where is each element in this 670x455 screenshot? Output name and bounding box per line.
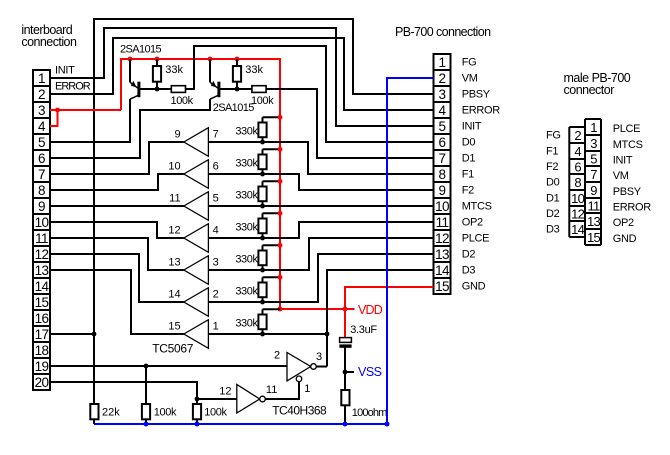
label U1E input pin 13 [168,257,180,269]
label R12 100k [154,407,177,419]
node VM rail at R13 [195,422,200,427]
capacitor C1 3.3uF [339,338,351,348]
svg-text:OP2: OP2 [613,217,634,229]
svg-text:10: 10 [168,161,180,173]
svg-text:8: 8 [574,175,581,190]
svg-text:14: 14 [168,289,180,301]
svg-text:11: 11 [436,215,449,230]
resistor R13 100k [193,404,201,424]
label U1B output pin 6 [213,161,219,173]
wire Q1 base [139,88,171,90]
svg-text:7: 7 [38,167,45,182]
svg-text:5: 5 [213,193,219,205]
labels J3 right pin names [613,123,652,245]
wire pin8 to U1B out [50,174,184,190]
wire U2B input [197,398,237,400]
node Q2 base junction [235,87,240,92]
label U1D input pin 12 [168,225,180,237]
svg-text:PLCE: PLCE [462,233,490,245]
connector J3 male PB-700 pinout [569,119,601,245]
svg-text:330k: 330k [235,318,258,330]
svg-text:D1: D1 [462,153,476,165]
svg-text:8: 8 [439,167,446,182]
title interboard connection [21,23,77,49]
resistor R8 330k [258,213,280,238]
label U1F output pin 2 [213,289,219,301]
resistor R6 330k [258,149,280,174]
svg-text:1: 1 [38,71,45,86]
wire pin13 to U1G out [50,270,184,334]
svg-text:D0: D0 [546,177,560,189]
resistor R2 33k [233,59,241,89]
svg-text:10: 10 [571,191,585,206]
node U2B input junction [195,397,200,402]
wire pin12 to U1F out [50,254,184,302]
node pin19 R12 junction [144,364,149,369]
svg-text:D3: D3 [462,265,476,277]
label VDD [358,303,383,317]
svg-text:OP2: OP2 [462,217,483,229]
title male PB-700 connector [564,71,631,97]
label U2A enable pin 1 [304,383,310,395]
node VM rail at corner [385,422,390,427]
wire Q2 base [219,88,252,90]
inverter U1A TC5067 [184,128,209,157]
wire Q1 collector to pin5 [50,99,130,142]
wire U1F to D2 pin13 [208,254,433,302]
label R3 100k [171,95,194,107]
node R10 top junction VDD [278,275,283,280]
svg-text:FG: FG [462,57,477,69]
node VDD rail at R-33k-1 top [155,57,160,62]
node R7 bottom junction [260,204,265,209]
resistor R10 330k [258,277,280,302]
svg-text:3: 3 [38,103,45,118]
svg-text:PBSY: PBSY [613,186,642,198]
node R6 top junction VDD [278,147,283,152]
svg-text:14: 14 [435,263,450,278]
wire U2B output to U2A enable [265,382,299,399]
svg-text:3: 3 [316,351,322,363]
inverter U2A TC40H368 [287,353,316,382]
svg-text:4: 4 [439,103,447,118]
svg-text:2: 2 [439,71,446,86]
svg-text:9: 9 [439,183,446,198]
wire pin20 net [50,382,197,404]
svg-text:12: 12 [168,225,180,237]
svg-text:3: 3 [213,257,219,269]
label C1 3.3uF [350,324,377,336]
svg-text:D0: D0 [462,137,476,149]
label U1A input pin 9 [174,129,180,141]
svg-text:3: 3 [590,136,597,151]
inverter U1F TC5067 [184,288,209,317]
svg-text:2: 2 [38,87,45,102]
svg-text:100ohm: 100ohm [352,407,387,419]
label R5 330k [235,126,258,138]
node D3 row7 junction [325,332,330,337]
svg-text:PLCE: PLCE [613,123,641,135]
label R10 330k [235,286,258,298]
svg-text:ERROR: ERROR [55,81,91,93]
svg-text:1: 1 [590,120,597,135]
svg-text:TC40H368: TC40H368 [272,404,327,418]
node R5 top junction VDD [278,115,283,120]
label Q1 2SA1015 [120,44,162,56]
svg-text:8: 8 [38,183,45,198]
label R6 330k [235,158,258,170]
title PB-700 connection [395,25,491,39]
resistor R9 330k [258,245,280,270]
svg-text:330k: 330k [235,126,258,138]
wire INIT net [50,28,434,126]
wire U1D to OP2 pin11 [208,222,433,238]
svg-text:9: 9 [174,129,180,141]
svg-text:12: 12 [571,206,585,221]
svg-text:2: 2 [274,349,280,361]
resistor R5 330k [258,117,280,142]
label U1D output pin 4 [213,225,219,237]
svg-text:9: 9 [38,199,45,214]
resistor R4 100k [252,86,266,93]
svg-text:15: 15 [168,321,180,333]
svg-text:6: 6 [574,159,581,174]
svg-text:6: 6 [213,161,219,173]
svg-text:16: 16 [35,311,49,326]
svg-text:F1: F1 [546,146,558,158]
svg-text:3: 3 [439,87,446,102]
resistor R1 33k [153,59,161,89]
inverter U2B TC40H368 [237,384,266,413]
node VSS junction [343,370,348,375]
svg-text:18: 18 [35,343,49,358]
label U2A output pin 3 [316,351,322,363]
svg-text:5: 5 [439,119,446,134]
svg-text:GND: GND [613,233,637,245]
label U2B input pin 12 [219,386,231,398]
svg-text:VDD: VDD [358,303,383,317]
transistor Q1 2SA1015 [130,59,139,99]
label R8 330k [235,222,258,234]
connector J1 interboard 20-pin [33,70,50,390]
svg-text:20: 20 [35,375,49,390]
label INIT [55,65,75,77]
label U1G input pin 15 [168,321,180,333]
svg-text:1: 1 [439,55,446,70]
wire pin17 stub [50,333,94,335]
svg-text:3.3uF: 3.3uF [350,324,377,336]
svg-text:GND: GND [462,281,486,293]
node pin3-pin4 junction [55,108,60,113]
label U1 TC5067 [152,342,194,356]
svg-text:100k: 100k [204,407,227,419]
label U2A input pin 2 [274,349,280,361]
svg-text:100k: 100k [171,95,194,107]
svg-text:D2: D2 [462,249,476,261]
node R9 top junction VDD [278,243,283,248]
label VSS [358,365,382,379]
wire VDD pin3 [50,109,121,111]
wire pin7 to U1A out [50,142,184,174]
label U2B output pin 11 [266,384,277,396]
svg-text:6: 6 [439,135,446,150]
label R11 330k [235,318,258,330]
connector J2 PB-700 15-pin [434,54,451,294]
svg-text:1: 1 [213,321,219,333]
label R7 330k [235,190,258,202]
wire VDD pin4 jog [50,110,58,126]
svg-text:12: 12 [435,231,449,246]
svg-text:15: 15 [587,230,601,245]
svg-text:330k: 330k [235,158,258,170]
svg-text:10: 10 [35,215,49,230]
node Q1 base junction [155,87,160,92]
labels J2 pin names [462,57,501,293]
svg-text:INIT: INIT [462,121,482,133]
svg-text:19: 19 [35,359,49,374]
resistor R7 330k [258,181,280,206]
wire VDD bottom [280,287,434,309]
wire capacitor to VSS node [344,347,346,390]
label U1B input pin 10 [168,161,180,173]
label R13 100k [204,407,227,419]
node R6 bottom junction [260,172,265,177]
svg-text:TC5067: TC5067 [152,342,194,356]
label R11 22k [102,407,120,419]
label R14 100ohm [352,407,387,419]
label R2 33k [245,64,263,76]
wire VSS stub [345,371,354,373]
svg-text:100k: 100k [251,95,274,107]
wire pin9 to U1C out [50,205,184,207]
wire VDD rail [121,59,280,309]
wire pin19 net [50,365,287,367]
label U1A output pin 7 [213,129,219,141]
svg-text:15: 15 [435,279,449,294]
svg-text:13: 13 [435,247,449,262]
wire D1 net [266,89,434,158]
label R9 330k [235,254,258,266]
node R10 bottom junction [260,300,265,305]
svg-text:11: 11 [169,193,180,205]
svg-text:7: 7 [590,167,597,182]
svg-text:MTCS: MTCS [462,201,492,213]
node R5 bottom junction [260,140,265,145]
node R11 bottom junction [260,332,265,337]
svg-text:100k: 100k [154,407,177,419]
svg-text:12: 12 [219,386,231,398]
svg-text:13: 13 [587,214,601,229]
svg-text:14: 14 [571,222,585,237]
svg-text:17: 17 [35,327,49,342]
svg-text:ERROR: ERROR [462,105,501,117]
svg-text:2SA1015: 2SA1015 [120,44,162,56]
svg-text:FG: FG [546,130,561,142]
svg-text:10: 10 [435,199,449,214]
svg-text:F2: F2 [546,161,558,173]
svg-text:15: 15 [35,295,49,310]
svg-text:2SA1015: 2SA1015 [213,102,255,114]
svg-text:PB-700 connection: PB-700 connection [395,25,491,39]
resistor R3 100k [171,86,185,93]
label U1F input pin 14 [168,289,180,301]
svg-text:12: 12 [35,247,49,262]
label U1C output pin 5 [213,193,219,205]
svg-text:13: 13 [35,263,49,278]
svg-text:330k: 330k [235,190,258,202]
wire pin11 to U1E out [50,238,184,270]
node R8 top junction VDD [278,211,283,216]
svg-text:D3: D3 [546,224,560,236]
resistor R11 22k [90,404,98,424]
wire PBSY net [94,19,434,404]
node VDD junction [343,307,348,312]
wire U1G to D3 pin14 and U2A [208,270,433,367]
svg-text:F1: F1 [462,169,474,181]
svg-text:VSS: VSS [358,365,382,379]
svg-text:14: 14 [35,279,50,294]
svg-text:13: 13 [168,257,180,269]
node R8 bottom junction [260,236,265,241]
svg-text:330k: 330k [235,222,258,234]
svg-text:1: 1 [304,383,310,395]
label Q2 2SA1015 [213,102,255,114]
wire U1E to PLCE pin12 [208,238,433,270]
resistor R14 100ohm [341,390,349,424]
label R1 33k [165,64,183,76]
node VDD rail at Q2 emitter [208,57,213,62]
svg-text:5: 5 [38,135,45,150]
svg-text:MTCS: MTCS [613,139,643,151]
svg-text:F2: F2 [462,185,474,197]
svg-text:VM: VM [462,73,478,85]
wire pin10 to U1D out [50,222,184,238]
svg-text:D2: D2 [546,208,560,220]
resistor R11 330k [258,309,280,334]
node VDD rail corner junction [278,307,283,312]
inverter U1G TC5067 [184,320,209,349]
node R9 bottom junction [260,268,265,273]
wire U2A output to D3 [316,366,327,368]
svg-text:connector: connector [564,83,615,97]
svg-text:INIT: INIT [613,155,633,167]
svg-text:22k: 22k [102,407,120,419]
svg-text:7: 7 [213,129,219,141]
wire Q2 collector to pin6 [50,99,210,158]
svg-text:33k: 33k [165,64,183,76]
svg-text:PBSY: PBSY [462,89,491,101]
svg-text:330k: 330k [235,286,258,298]
svg-text:9: 9 [590,183,597,198]
node R7 top junction VDD [278,179,283,184]
svg-text:11: 11 [587,198,600,213]
wire D0 net [186,46,434,142]
transistor Q2 2SA1015 [210,59,219,99]
node VM rail at R14 [343,422,348,427]
svg-text:330k: 330k [235,254,258,266]
resistor R12 100k [142,366,150,424]
inverter U1B TC5067 [184,160,209,189]
wire U1C to MTCS pin10 [208,205,433,207]
wire VDD to capacitor [344,309,346,338]
svg-text:2: 2 [213,289,219,301]
svg-text:4: 4 [574,144,581,159]
wire U1A to F1 pin8 [208,142,433,174]
svg-text:D1: D1 [546,193,560,205]
svg-text:11: 11 [266,384,277,396]
node VDD rail at Q1 emitter [128,57,133,62]
wire VDD stub to label [345,308,355,310]
wire U1B to F2 pin9 [208,174,433,190]
labels J3 left pin names [546,130,561,236]
svg-text:4: 4 [213,225,219,237]
inverter U1D TC5067 [184,224,209,253]
svg-text:11: 11 [35,231,48,246]
node PBSY pin17 junction [92,332,97,337]
svg-text:7: 7 [439,151,446,166]
svg-text:4: 4 [38,119,46,134]
svg-text:6: 6 [38,151,45,166]
svg-text:ERROR: ERROR [613,202,652,214]
label U2 TC40H368 [272,404,327,418]
svg-text:INIT: INIT [55,65,75,77]
svg-text:2: 2 [574,128,581,143]
label U1E output pin 3 [213,257,219,269]
label ERROR [55,81,91,93]
svg-text:connection: connection [21,35,77,49]
svg-text:5: 5 [590,151,597,166]
node VDD rail at R-33k-2 top [235,57,240,62]
inverter U1C TC5067 [184,192,209,221]
svg-text:33k: 33k [245,64,263,76]
inverter U1E TC5067 [184,256,209,285]
svg-text:VM: VM [613,170,629,182]
label U1G output pin 1 [213,321,219,333]
wire ERROR net [50,38,434,110]
label U1C input pin 11 [169,193,180,205]
node VM rail at R12 [144,422,149,427]
label R4 100k [251,95,274,107]
wire VM net [94,78,434,424]
